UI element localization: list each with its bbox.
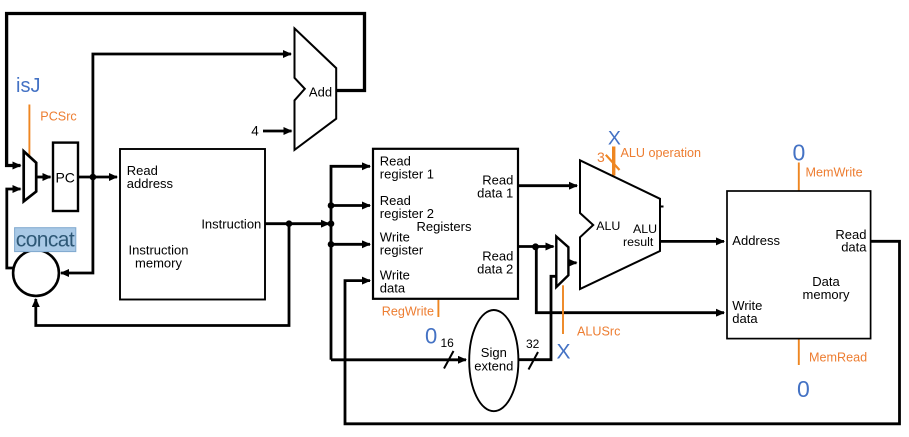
svg-text:ALU: ALU [596,219,620,233]
svg-text:ALU: ALU [633,222,657,236]
svg-text:Add: Add [309,85,332,100]
svg-text:data: data [380,281,406,296]
svg-text:concat: concat [16,228,75,251]
svg-text:PC: PC [55,169,74,185]
svg-text:memory: memory [803,287,850,302]
svg-text:X: X [557,340,571,363]
svg-text:isJ: isJ [16,75,40,97]
svg-text:register 1: register 1 [380,166,434,181]
svg-text:data: data [732,311,758,326]
svg-text:Address: Address [732,233,780,248]
svg-text:PCSrc: PCSrc [40,110,76,124]
svg-text:3: 3 [597,149,605,165]
svg-text:0: 0 [793,140,806,166]
svg-text:data 1: data 1 [477,185,513,200]
svg-text:X: X [608,128,621,150]
svg-text:data: data [841,239,867,254]
svg-text:16: 16 [441,336,455,350]
svg-text:32: 32 [526,337,540,351]
svg-text:memory: memory [135,256,182,271]
svg-text:data 2: data 2 [477,262,513,277]
svg-text:Registers: Registers [417,219,472,234]
svg-text:MemRead: MemRead [809,351,867,365]
svg-text:Instruction: Instruction [201,216,261,231]
svg-text:4: 4 [251,124,259,139]
svg-text:address: address [127,176,174,191]
svg-text:0: 0 [797,376,810,402]
svg-text:result: result [623,235,654,249]
svg-text:RegWrite: RegWrite [382,304,434,318]
svg-text:extend: extend [474,359,513,374]
svg-text:register: register [380,242,424,257]
svg-text:ALU operation: ALU operation [621,146,702,160]
svg-text:0: 0 [425,324,437,349]
svg-text:ALUSrc: ALUSrc [577,325,620,339]
svg-text:MemWrite: MemWrite [806,165,863,179]
